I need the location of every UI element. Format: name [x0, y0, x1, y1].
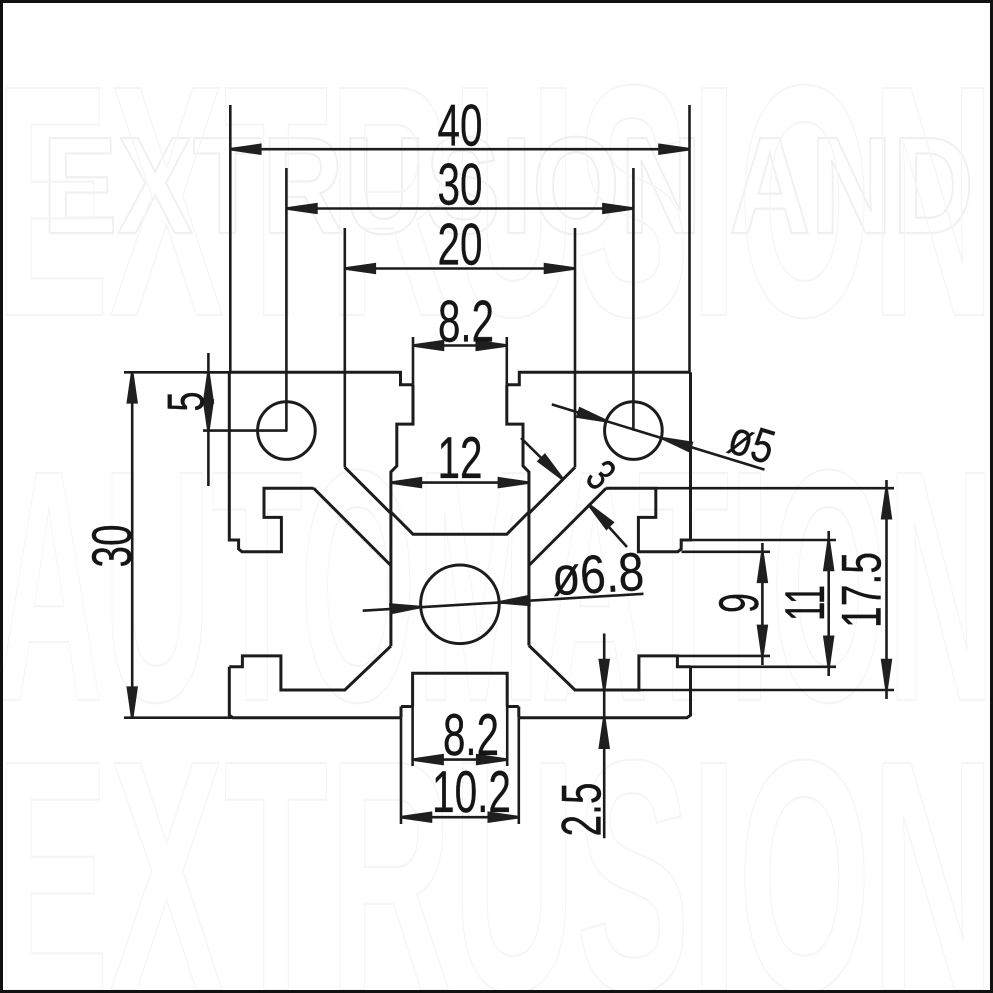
- bottom slot mouth walls: [400, 707, 403, 718]
- dimension 30 left: [124, 716, 233, 719]
- bottom slot cavity: [413, 673, 508, 706]
- dimension o5 leader: [552, 404, 765, 469]
- profile top face left: [229, 372, 413, 385]
- right strut upper edge: [529, 467, 575, 513]
- left outer edge upper: [229, 372, 313, 552]
- dimension 12: [391, 481, 529, 484]
- dimension 3 strut: [521, 438, 563, 479]
- svg-text:2.5: 2.5: [550, 783, 613, 837]
- dimension 10.2: [400, 718, 403, 824]
- top slot floor trapezoid: [391, 512, 529, 534]
- svg-text:ø6.8: ø6.8: [550, 542, 645, 607]
- svg-text:30: 30: [438, 152, 483, 218]
- center bore o6.8: [421, 565, 500, 644]
- dimension 8.2 top: [412, 337, 415, 385]
- svg-text:5: 5: [158, 392, 216, 412]
- dimension 11: [691, 539, 837, 542]
- svg-text:11: 11: [773, 585, 836, 621]
- dimension 9: [682, 550, 770, 553]
- hole right o5: [605, 402, 663, 460]
- dimension 20: [343, 228, 346, 467]
- svg-text:EXTRUSION: EXTRUSION: [0, 16, 993, 385]
- left strut upper edge: [345, 467, 391, 513]
- right strut lower edge: [529, 488, 606, 565]
- profile top face right: [507, 372, 691, 385]
- left outer edge lower: [229, 667, 401, 718]
- right bottom lip: [529, 646, 691, 691]
- svg-text:30: 30: [80, 525, 143, 568]
- hole left o5: [258, 402, 316, 460]
- bottom slot ledges: [401, 705, 413, 708]
- left strut lower edge: [314, 488, 391, 565]
- dimension 5: [203, 371, 229, 374]
- svg-text:10.2: 10.2: [432, 759, 511, 825]
- svg-text:9: 9: [707, 593, 770, 613]
- dimension o6.8 leader: [363, 594, 644, 611]
- svg-text:17.5: 17.5: [830, 552, 893, 628]
- dimension 40: [229, 105, 232, 372]
- top slot left wall: [391, 385, 413, 646]
- svg-text:8.2: 8.2: [438, 289, 494, 355]
- svg-text:40: 40: [438, 92, 483, 158]
- right outer edge lower: [519, 667, 691, 718]
- dimension 8.2 bottom: [411, 707, 414, 767]
- svg-text:12: 12: [438, 425, 483, 491]
- svg-text:20: 20: [438, 212, 483, 278]
- right outer edge upper: [606, 372, 690, 552]
- top slot right wall: [507, 385, 529, 646]
- left bottom lip: [229, 646, 391, 690]
- dimension 2.5: [603, 634, 606, 839]
- dimension 30 top: [285, 168, 288, 431]
- dimension 17.5: [656, 487, 894, 490]
